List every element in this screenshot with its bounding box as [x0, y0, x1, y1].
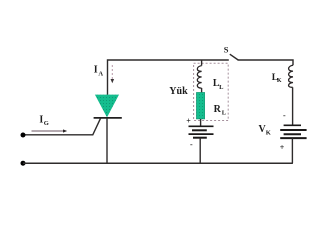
- svg-text:Yük: Yük: [169, 86, 188, 97]
- svg-text:-: -: [190, 140, 193, 149]
- battery VK plate long: [280, 129, 306, 131]
- svg-text:S: S: [224, 45, 229, 55]
- battery VK plate short -: [284, 124, 301, 126]
- resistor RL (green): [196, 92, 204, 119]
- wire gate lead: from terminal to cathode bar: [23, 118, 101, 135]
- node gate terminal dot: [21, 133, 26, 138]
- thyristor anode triangle (green): [95, 95, 119, 118]
- battery (load) plate short -: [193, 137, 207, 139]
- battery (load) plate short: [192, 129, 207, 131]
- wire coil LK to battery VK: [292, 87, 294, 125]
- wire coil to resistor stub: [201, 88, 203, 93]
- svg-text:A: A: [98, 71, 103, 78]
- inductor LL coil: [197, 66, 201, 89]
- svg-text:+: +: [186, 117, 191, 126]
- svg-text:-: -: [283, 111, 286, 120]
- wire bottom rail: [23, 162, 293, 164]
- svg-text:I: I: [94, 65, 98, 76]
- battery (load) plate long +: [189, 125, 214, 127]
- svg-text:K: K: [266, 129, 271, 136]
- wire resistor to battery stub: [200, 119, 202, 126]
- wire battery VK to bottom rail: [291, 138, 293, 163]
- inductor LK coil: [289, 65, 293, 87]
- svg-text:L: L: [219, 84, 224, 91]
- svg-text:L: L: [222, 110, 227, 117]
- svg-text:R: R: [214, 104, 222, 115]
- current arrow IG (right): [32, 130, 64, 132]
- battery (load) plate long: [189, 133, 214, 135]
- current arrow IA (dashed, down): [111, 65, 113, 79]
- svg-text:G: G: [44, 120, 49, 127]
- thyristor cathode bar: [94, 117, 122, 119]
- dashed load box (Yük): [194, 63, 229, 120]
- svg-text:+: +: [280, 143, 285, 152]
- wire middle branch top stub: [201, 60, 203, 66]
- wire anode branch: vertical from top rail down to thyristor, plus top rail left segment: [108, 60, 229, 95]
- switch S blade: [230, 54, 238, 60]
- wire top rail right segment with corner down to coil LK: [238, 60, 293, 65]
- node cathode return terminal dot: [21, 161, 26, 166]
- battery VK plate long +: [280, 137, 306, 139]
- svg-text:I: I: [39, 114, 43, 125]
- wire cathode lead down to bottom rail: [106, 118, 108, 163]
- wire battery to bottom rail: [199, 138, 201, 163]
- battery VK plate short: [284, 133, 301, 135]
- svg-text:K: K: [277, 78, 282, 84]
